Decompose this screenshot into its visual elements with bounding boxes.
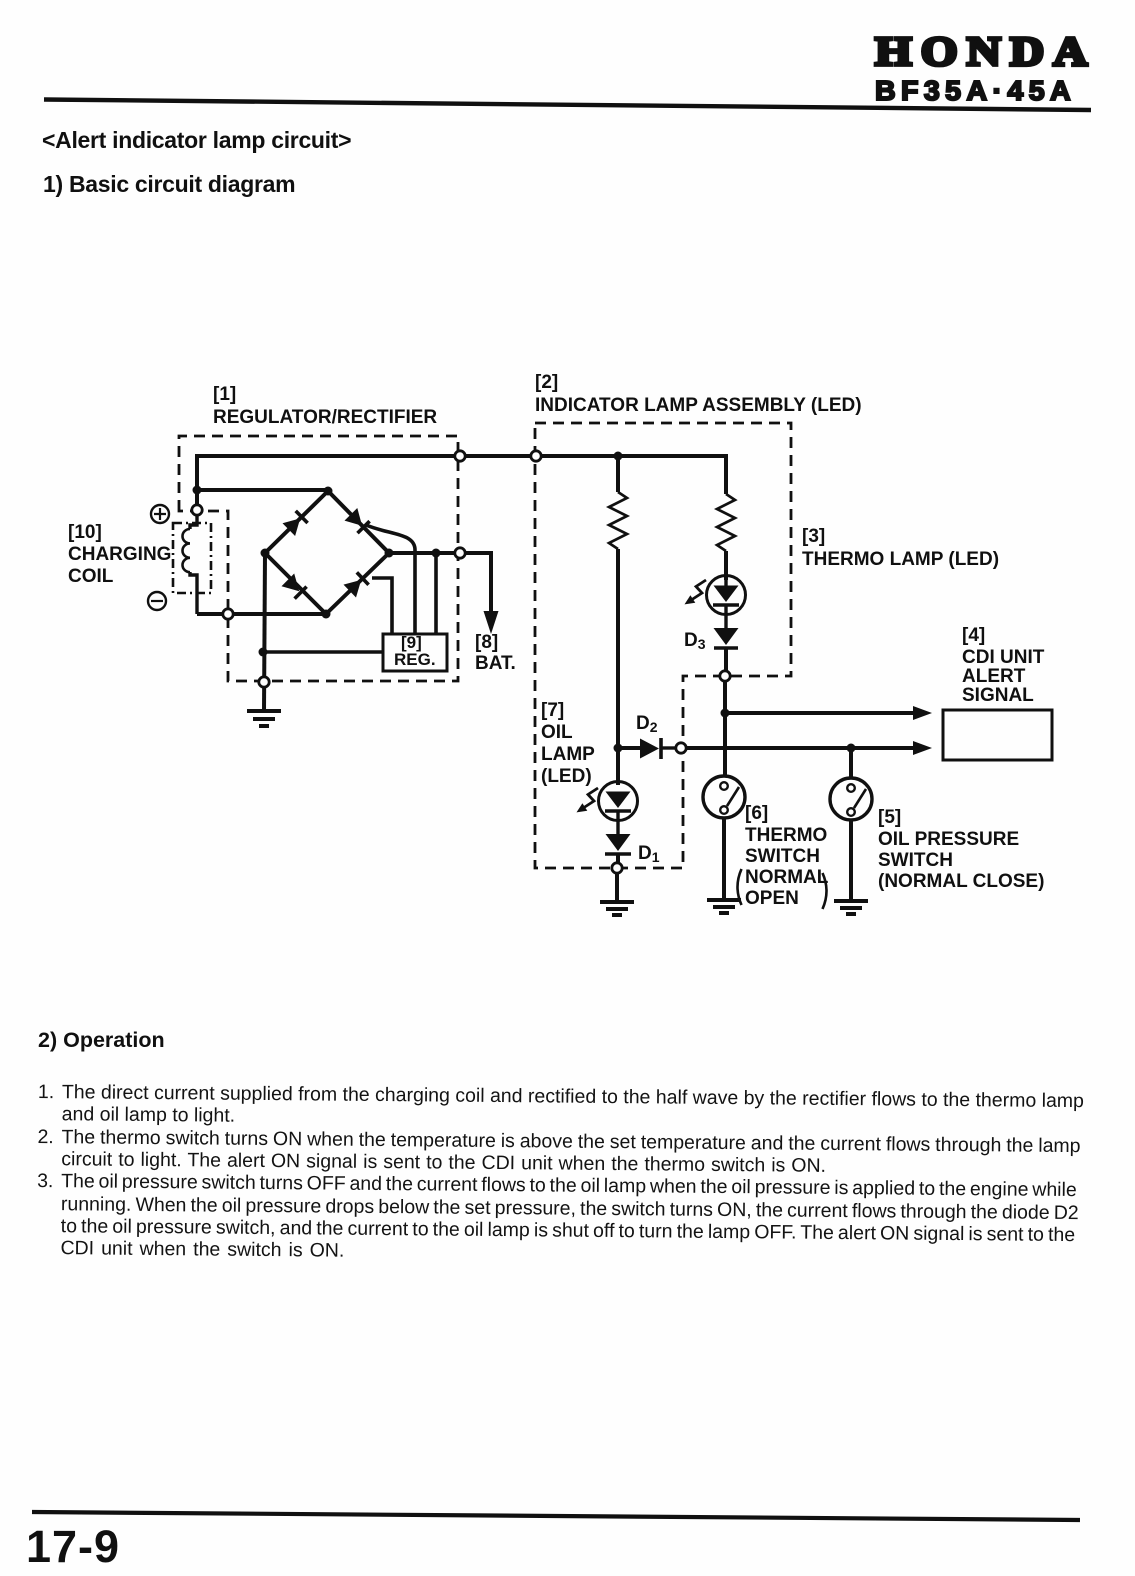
thermo switch contacts and lever [720,782,739,814]
junction dot bridge bottom vertex [322,610,331,619]
thermo LED light arrow [685,580,707,604]
junction dot oil pressure line [847,744,856,753]
wire REG to ground branch [263,650,383,654]
dashed box [1] regulator/rectifier [179,436,458,681]
section 1 heading [43,171,295,198]
label [2] INDICATOR LAMP ASSEMBLY (LED) [535,372,558,394]
terminal circle thermo branch box edge [720,671,730,681]
dash-dot box [10] charging coil [173,523,211,593]
junction dot top bus left branch [614,452,623,461]
resistor (oil lamp branch) [609,492,627,549]
label [3] THERMO LAMP (LED) [802,526,825,548]
label [8] BAT. [475,632,498,654]
wire left drop to coil [195,454,199,512]
dashed box [2]+[7] indicator lamp assembly / oil lamp [535,423,791,868]
terminal circle D2 output box edge [676,743,686,753]
label [4] CDI UNIT ALERT SIGNAL [962,625,985,647]
junction dot bridge top vertex [324,487,333,496]
wire oil lamp to ground [615,873,619,901]
bridge rectifier arms [265,491,389,614]
label diode D1 [638,843,660,865]
junction dot REG ground wire [259,648,268,657]
thermo switch circle [703,776,745,818]
bridge diode upper-left (L to T) [283,511,308,536]
wire thermo switch to ground [722,818,726,899]
arrowhead CDI line 2 [913,741,932,755]
ground (regulator) [247,711,281,726]
model designation BF35A-45A [875,75,1076,107]
operation numbered text [7,0,1135,310]
wire left lamp branch lower [616,549,620,785]
terminal circle output right edge [455,548,465,558]
terminal circle regulator ground [259,677,269,687]
terminal circle coil plus [192,505,202,515]
wire oil pressure switch to ground [849,820,853,900]
ground (thermo switch) [707,900,741,913]
diode D3 [714,628,739,671]
junction dot CDI line 1 [721,709,730,718]
wire thermo branch upper [724,454,728,494]
terminal circle oil lamp ground box edge [612,863,622,873]
CDI unit box [943,710,1052,760]
label [9] REG. [401,633,422,653]
junction dot bridge left vertex [261,549,270,558]
ground (oil pressure switch) [834,901,868,914]
wire CDI alert line 2 [686,746,914,750]
terminal circle coil minus wire [223,609,233,619]
arrowhead CDI line 1 [913,706,932,720]
thermo LED triangle and bar [713,580,739,628]
page title [42,127,351,154]
minus symbol [148,592,166,610]
diode D1 [605,834,631,863]
wire left lamp branch upper [616,456,620,492]
oil lamp LED circle [599,782,638,821]
oil pressure switch contacts and lever [847,784,866,816]
HONDA wordmark [875,27,1097,75]
oil pressure switch circle [830,778,872,820]
bridge diode lower-right (B to R) [344,572,369,597]
wire REG input 3 (from output node) [434,553,438,634]
arrow to battery [484,611,499,634]
wire REG input 1 (from lower-right arm) [372,578,392,634]
oil LED triangle and bar [605,792,631,835]
wire bridge output to BAT corner [389,553,491,612]
section 2 heading [38,1028,165,1053]
terminal circle top bus box1 edge [455,451,465,461]
label [6] THERMO SWITCH NORMAL OPEN [745,803,768,825]
label [10] CHARGING COIL [68,522,102,544]
regulator box [9] [383,634,447,671]
bridge diode upper-right (T to R) [345,508,370,533]
label [7] OIL LAMP (LED) [541,700,564,722]
wire REG input 2 (curved from upper-right arm) [366,525,415,634]
junction dot oil lamp node [614,744,623,753]
footer rule [32,1512,1080,1520]
diode D2 [618,738,676,759]
wire bridge left vertex down [264,553,265,711]
label diode D2 [636,713,658,735]
wire to bridge top [197,488,328,492]
label [5] OIL PRESSURE SWITCH (NORMAL CLOSE) [878,807,901,829]
plus symbol [151,505,169,523]
parenthesis marks for NORMAL OPEN [738,869,827,909]
wire CDI alert line 1 [725,711,914,715]
resistor (thermo lamp branch) [717,494,735,551]
wire top bus [197,454,726,458]
junction dot bridge right vertex [385,549,394,558]
junction dot coil top [193,486,202,495]
wire thermo branch to switch [723,681,727,776]
bridge diode lower-left (L to B) [282,574,307,599]
oil LED light arrow [577,788,599,812]
label [1] REGULATOR/RECTIFIER [213,384,236,406]
label diode D3 [684,630,706,652]
wire oil pressure switch drop [849,748,853,778]
junction dot output node [432,549,441,558]
wire coil bottom to bridge bottom [197,612,326,616]
thermo lamp LED circle [707,576,746,615]
charging coil winding L [182,515,197,614]
wire thermo branch to LED [724,551,728,580]
ground (oil lamp) [600,902,634,915]
page number 17-9 [26,1521,120,1573]
terminal circle top bus box2 edge [531,451,541,461]
